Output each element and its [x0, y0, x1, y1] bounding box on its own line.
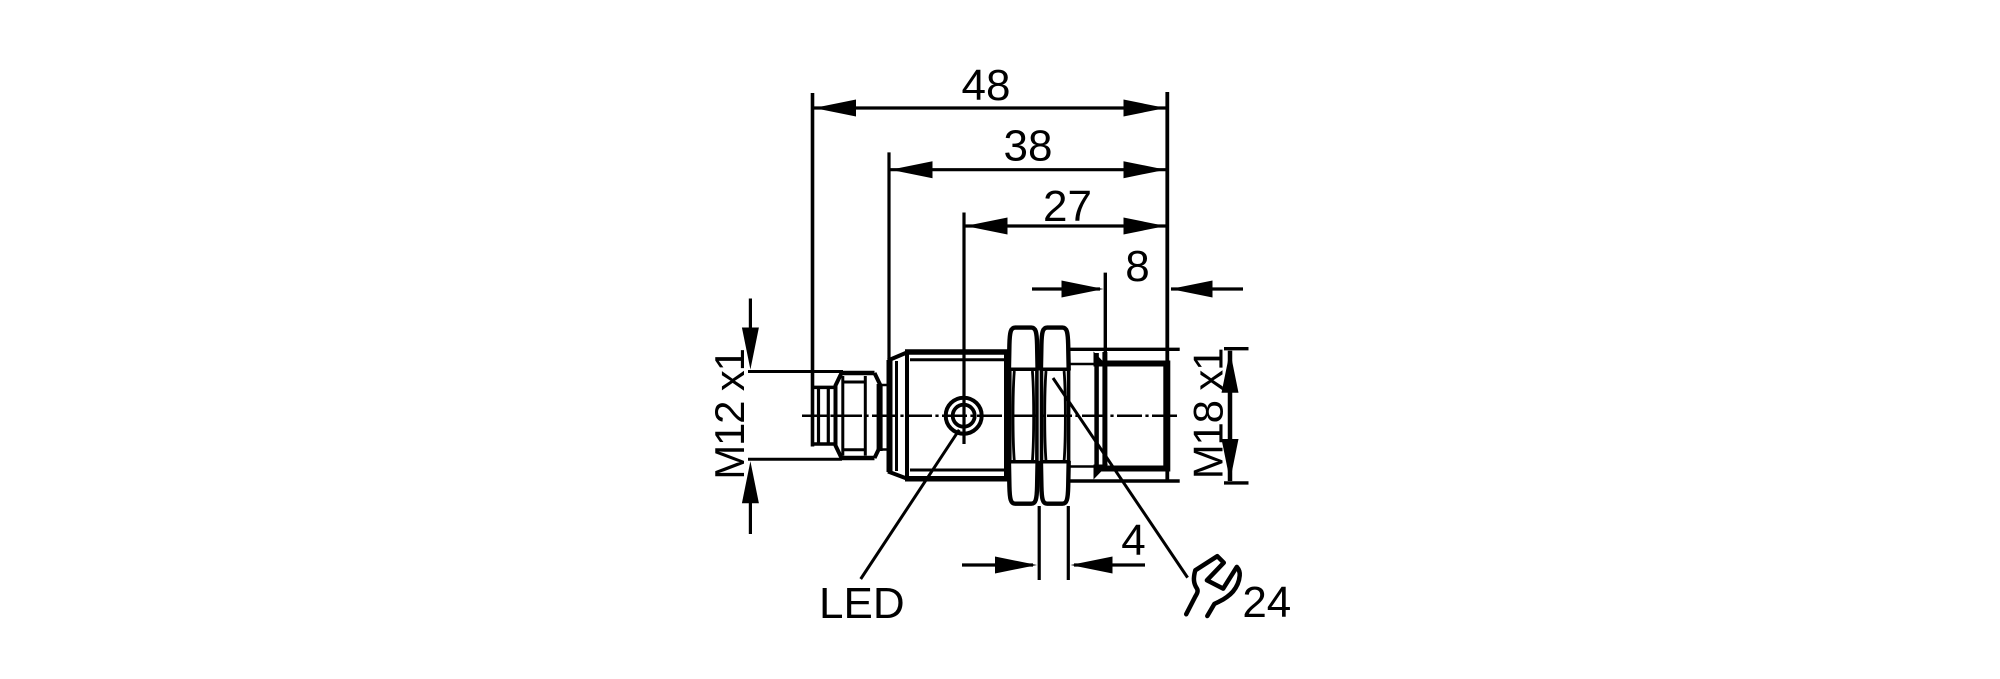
chamfer triangle top — [1094, 352, 1109, 367]
hex nut 1 cap bottom — [1009, 461, 1038, 504]
body left edge — [887, 360, 893, 472]
dimension 27 line — [964, 224, 1167, 227]
dimension 48 line — [813, 106, 1168, 109]
thread root rectangle bottom — [1095, 466, 1170, 472]
svg-text:4: 4 — [1121, 516, 1145, 565]
M18 bottom tick — [1224, 481, 1249, 484]
svg-text:M18 x1: M18 x1 — [1185, 349, 1232, 480]
wrench leader line — [1053, 378, 1188, 578]
M12 bottom arrow — [749, 500, 752, 534]
LED window inner circle — [953, 405, 975, 427]
groove right wall — [1102, 352, 1107, 468]
hex nut 1 chamfer arcs — [1013, 371, 1014, 461]
body right face edge — [1163, 361, 1170, 472]
plug neck lines — [880, 384, 891, 387]
M18 top tick — [1224, 347, 1249, 350]
M12 bottom extension line — [748, 458, 842, 461]
svg-text:24: 24 — [1242, 578, 1291, 627]
hex nut 2 facet lines — [1041, 368, 1070, 372]
M12 top extension line — [748, 370, 843, 373]
M12 plug thread stripe 2 — [827, 388, 830, 444]
svg-text:38: 38 — [1004, 122, 1053, 171]
body shoulder line — [905, 352, 909, 479]
dimension 4 arrows — [962, 563, 1033, 566]
dim 48 extension line left / plug left edge — [811, 93, 815, 447]
barrel crest line bottom — [1069, 479, 1180, 482]
dim 4 extension line right — [1067, 506, 1070, 580]
barrel crest line top — [1069, 348, 1180, 351]
dimension 38 line — [889, 168, 1167, 171]
hex nut 2 cap top — [1041, 328, 1069, 371]
chamfer triangle bottom — [1094, 465, 1109, 480]
hex nut 1 facet lines — [1009, 368, 1038, 372]
LED window outer circle — [946, 398, 982, 434]
hex nut 2 cap bottom — [1041, 461, 1069, 504]
M12 plug thread outline — [811, 386, 836, 390]
body chamfer top-left — [888, 352, 908, 361]
body bottom edge — [905, 476, 1009, 482]
dim right extension line — [1165, 92, 1169, 481]
dim 4 extension line left — [1038, 506, 1041, 580]
wrench icon — [1186, 556, 1240, 616]
M12 dimension top arrow — [749, 299, 752, 331]
body ring line — [895, 361, 898, 471]
M12 plug nut inner facet lines — [841, 376, 844, 456]
hex nut 1 cap top — [1009, 328, 1038, 371]
svg-text:27: 27 — [1043, 182, 1092, 231]
thread root rectangle top — [1095, 361, 1170, 367]
dim 8 tick line — [1104, 273, 1107, 360]
M12 plug nut right face — [877, 384, 883, 451]
svg-text:M12 x1: M12 x1 — [706, 349, 753, 480]
barrel root line top (between nut and groove) — [1069, 363, 1094, 366]
body top edge — [905, 349, 1009, 355]
M12 plug thread stripe 1 — [817, 388, 820, 444]
M18 dimension line — [1228, 351, 1233, 481]
body inner bottom line — [910, 469, 1006, 472]
dimension 8 arrows — [1032, 287, 1100, 290]
svg-text:LED: LED — [819, 579, 905, 628]
LED leader line — [861, 430, 960, 579]
hex nut 1 side edges — [1008, 369, 1012, 462]
barrel root line bottom (between nut and groove) — [1069, 465, 1094, 468]
body inner top line — [910, 358, 1006, 361]
dim 38 extension line — [887, 152, 890, 362]
M12 plug hex nut outline — [842, 373, 875, 458]
centerline — [802, 414, 1180, 417]
body chamfer bottom-left — [888, 472, 908, 480]
dim 27 extension line — [962, 213, 965, 445]
svg-text:48: 48 — [962, 61, 1011, 110]
hex nut 2 side edges — [1040, 369, 1044, 462]
groove left wall — [1094, 353, 1099, 468]
hex nut 2 chamfer arcs — [1045, 371, 1046, 461]
body right edge — [1004, 350, 1009, 482]
svg-text:8: 8 — [1125, 242, 1149, 291]
